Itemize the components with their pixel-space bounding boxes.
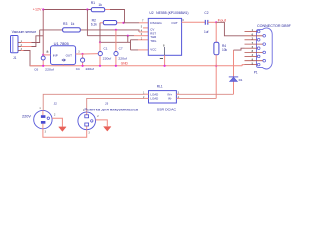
wire ground bus [30, 65, 245, 66]
wire RL1 pin3 [180, 93, 234, 95]
svg-text:6,1k: 6,1k [91, 22, 97, 26]
wire 5V rail to C1 [83, 53, 101, 55]
svg-text:VCC: VCC [150, 47, 156, 51]
node Fout [215, 18, 226, 23]
junction dot on R3 line [115, 29, 117, 31]
connector P1 DB9 shell [257, 28, 273, 69]
svg-text:Розетка для вакуумнасоса: Розетка для вакуумнасоса [84, 107, 138, 111]
svg-text:220uf: 220uf [103, 57, 112, 61]
svg-text:C7: C7 [119, 47, 123, 51]
junction dot 555 gnd [164, 65, 166, 67]
svg-text:OUT: OUT [66, 53, 73, 57]
resistor R2 [91, 19, 124, 27]
svg-text:CONNECTOR DB9F: CONNECTOR DB9F [257, 24, 291, 28]
wire Fout to DB9 [216, 22, 244, 36]
svg-text:SSR DC/AC: SSR DC/AC [157, 107, 177, 111]
wire J1 pin3 to GND [21, 51, 43, 66]
connector J1 [11, 36, 23, 60]
svg-text:TRG: TRG [150, 39, 157, 43]
svg-text:1k: 1k [98, 3, 102, 7]
junction dot R2 right [122, 22, 124, 24]
svg-text:C2: C2 [204, 11, 208, 15]
wire J3 to RL1 load2 [87, 98, 145, 112]
wire J2 pin2 to earth [52, 118, 62, 127]
svg-text:Vacuum sensor: Vacuum sensor [12, 30, 38, 34]
junction dot C4 gnd [82, 65, 84, 67]
svg-text:U2: U2 [149, 11, 153, 15]
svg-text:220uf: 220uf [45, 68, 54, 72]
capacitor C1 [98, 23, 111, 66]
capacitor C2 [204, 11, 209, 34]
wire C1 node to TRG and VCC [100, 40, 148, 50]
svg-text:D1: D1 [239, 78, 243, 82]
ground earth symbol J3 [104, 127, 111, 132]
wire R3 to RST pin [80, 30, 148, 32]
svg-text:OUT: OUT [171, 21, 178, 25]
svg-text:1k: 1k [71, 22, 75, 26]
wire Fout down to R4 [215, 22, 217, 42]
svg-text:1uf: 1uf [204, 30, 209, 34]
junction dot at R1 left [86, 8, 88, 10]
op-amp U2 555 timer [148, 11, 188, 55]
svg-text:+12V: +12V [33, 7, 42, 11]
wire D1 to DB9 [234, 48, 245, 50]
resistor R1 [91, 1, 110, 12]
capacitor C6 [34, 55, 54, 72]
junction dot C1 node [99, 41, 101, 43]
svg-text:RL1: RL1 [157, 84, 163, 88]
svg-text:NE555 (КР1006ВИ1): NE555 (КР1006ВИ1) [156, 11, 188, 15]
svg-text:C4: C4 [76, 67, 80, 71]
wire 220V bus J2 to J3 [43, 129, 87, 137]
svg-text:Fout: Fout [218, 18, 226, 22]
node A junction dot at +12V [42, 8, 44, 10]
wire R4 down to GND and RL1 pin 4 [180, 55, 216, 99]
svg-text:J3: J3 [105, 101, 109, 105]
wire OUT of U1 [76, 51, 83, 54]
svg-text:R3: R3 [63, 22, 67, 26]
svg-text:220V: 220V [22, 115, 32, 119]
label Vacuum sensor [12, 30, 38, 34]
wire U1 ground stub [62, 65, 64, 66]
junction dot U1 out [82, 53, 84, 55]
svg-text:GND: GND [121, 62, 129, 66]
svg-text:DSCHG: DSCHG [150, 21, 162, 25]
ground earth symbol J2 [59, 127, 66, 131]
svg-text:R1: R1 [91, 1, 95, 5]
junction dot on THR line [127, 35, 129, 37]
wire J1 pin1 [21, 30, 40, 43]
socket J3 pump [78, 101, 139, 134]
label CONNECTOR DB9F [257, 24, 291, 28]
junction dot C7 gnd [115, 65, 117, 67]
wire J3 pin2 to earth [96, 120, 108, 126]
svg-text:220uf: 220uf [118, 57, 127, 61]
svg-text:INP: INP [53, 53, 58, 57]
resistor R4 [214, 42, 228, 55]
wire OUT pin 3 to C2 [182, 18, 205, 22]
svg-text:P1: P1 [254, 70, 258, 74]
junction dot INP node [42, 54, 44, 56]
junction dot R4 GND [215, 65, 217, 67]
capacitor C7 [114, 30, 127, 66]
junction dot C1 gnd [99, 65, 101, 67]
voltage regulator U1 7805 [51, 42, 76, 65]
label GND [121, 62, 129, 66]
wire THR dot down to TRG node [127, 36, 129, 43]
diode D1 [229, 50, 243, 94]
wire J1 pin2 [21, 36, 43, 47]
connector P1 pins [245, 29, 266, 74]
wire from +12V dot down to THR line [86, 10, 88, 36]
wire to DSCHG pin 7 [124, 19, 149, 23]
wire J2 to RL1 load1 [43, 94, 144, 110]
capacitor C4 [76, 54, 94, 71]
svg-text:IN-: IN- [168, 97, 172, 101]
svg-text:C6: C6 [34, 68, 38, 72]
wire J1 pin1 to R3 [40, 29, 63, 31]
svg-text:LOAD: LOAD [150, 97, 158, 101]
socket J2 220V [22, 102, 57, 134]
wire +12V vertical down to INP node [42, 10, 44, 55]
pin stub CV pin 5 [141, 25, 149, 40]
svg-text:10k: 10k [222, 48, 228, 52]
wire +12V horizontal to R1 [43, 9, 91, 11]
node +12V label [33, 7, 42, 11]
resistor R3 [63, 22, 81, 32]
wire R1 right elbow down to DSCHG line [110, 10, 125, 23]
wire THR line from +12V [87, 35, 148, 37]
relay RL1 SSR [143, 84, 180, 111]
wire VCC pin8 down to GND [160, 55, 165, 66]
svg-text:220uf: 220uf [86, 67, 95, 71]
wire C2 to Fout node [208, 21, 216, 23]
junction dot C6 gnd [42, 65, 44, 67]
svg-text:C1: C1 [104, 47, 108, 51]
svg-text:J1: J1 [13, 56, 17, 60]
wire INP [43, 50, 50, 55]
svg-text:J2: J2 [54, 102, 58, 106]
